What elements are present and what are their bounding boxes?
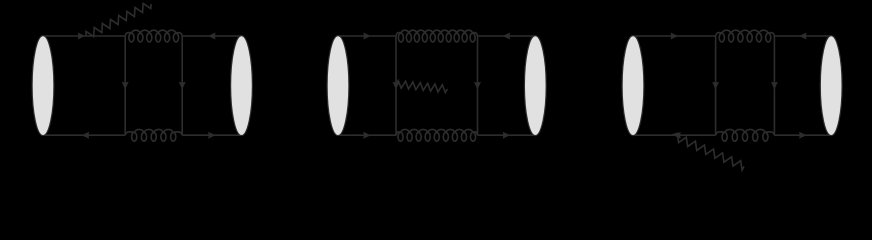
wire: diagram-2 incoming top-left quark line <box>338 33 396 40</box>
wire: diagram-3 top-right quark line <box>774 33 831 40</box>
gluon: diagram-1 upper gluon exchange <box>125 30 182 42</box>
wire: diagram-3 incoming top-left quark line <box>633 33 716 40</box>
wire: diagram-3 bottom-right quark line <box>774 132 831 139</box>
wire: diagram-1 left internal quark propagator <box>122 36 129 135</box>
wire: diagram-2 top-right quark line <box>478 33 536 40</box>
blob: diagram-1 right meson blob <box>231 36 253 136</box>
wire: diagram-2 left internal quark propagator <box>393 36 400 135</box>
wire: diagram-2 right internal quark propagator <box>474 36 481 135</box>
blob: diagram-2 right meson blob <box>524 36 546 136</box>
gluon: diagram-3 lower gluon exchange <box>716 129 775 141</box>
gluon: diagram-1 lower gluon exchange <box>125 129 182 141</box>
wire: diagram-2 bottom-right quark line <box>478 132 536 139</box>
blob: diagram-2 left meson blob <box>327 36 349 136</box>
gluon: diagram-2 lower gluon exchange <box>396 129 478 141</box>
photon: diagram-2 photon off left internal propagator <box>396 81 448 93</box>
wire: diagram-1 incoming top-left quark line <box>43 33 125 40</box>
wire: diagram-2 bottom-left quark line <box>338 132 396 139</box>
wire: diagram-1 right internal quark propagator <box>179 36 186 135</box>
wire: diagram-1 bottom-left quark line <box>43 132 125 139</box>
photon: diagram-3 radiated photon off bottom-left leg <box>672 133 745 170</box>
wire: diagram-1 bottom-right quark line <box>182 132 241 139</box>
gluon: diagram-3 upper gluon exchange <box>716 30 775 42</box>
photon: diagram-1 radiated photon off top-left leg <box>86 3 151 36</box>
gluon: diagram-2 upper gluon exchange <box>396 30 478 42</box>
wire: diagram-3 left internal quark propagator <box>712 36 719 135</box>
blob: diagram-3 right meson blob <box>820 36 842 136</box>
wire: diagram-3 bottom-left quark line <box>633 132 716 139</box>
wire: diagram-3 right internal quark propagator <box>771 36 778 135</box>
blob: diagram-3 left meson blob <box>622 36 644 136</box>
wire: diagram-1 top-right quark line <box>182 33 241 40</box>
blob: diagram-1 left meson blob <box>32 36 54 136</box>
